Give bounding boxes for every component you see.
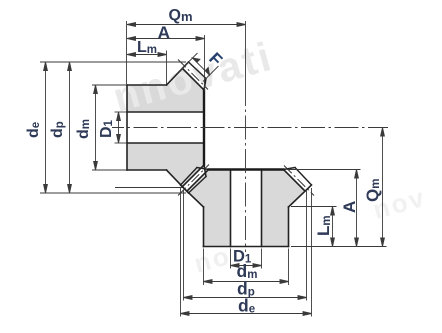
G1 hub bottom edge: [127, 169, 167, 171]
ext line dm bottom: [92, 169, 126, 171]
G1 tip line upper: [189, 62, 207, 79]
ext line A right (y=169.5): [287, 169, 361, 171]
ext line de top: [40, 61, 186, 63]
G2 toe face left: [197, 168, 209, 170]
svg-text:D1: D1: [98, 119, 115, 138]
dimension lines with arrows: [44, 23, 385, 316]
F extension toe: [203, 66, 219, 82]
G1 root line lower: [183, 165, 205, 187]
ext line D1 bottom: [115, 142, 128, 144]
G2 root line right: [284, 170, 306, 192]
G1 front face: [203, 89, 205, 166]
svg-text:de: de: [25, 122, 42, 138]
G2 bore left line: [230, 170, 232, 247]
G1 bore bottom line: [127, 142, 204, 144]
G2 bore right line: [261, 170, 263, 247]
G1 hub top edge: [127, 84, 167, 86]
dimension extension lines: [40, 21, 387, 317]
ext line Qm right (y=246.5): [291, 246, 387, 248]
dim Lm top: [127, 54, 167, 56]
G2 back cone left: [181, 185, 204, 207]
ext line dm top: [92, 84, 126, 86]
ext line dm bottom gear right: [288, 249, 290, 286]
ext line x=204.5 (A): [204, 35, 206, 91]
G2 hub left side: [203, 207, 205, 247]
ext line dp bottom gear right: [306, 190, 308, 301]
dim A right: [356, 170, 358, 247]
dim F: [193, 58, 210, 75]
dim de left: [45, 62, 47, 193]
ext line x=166.5 (Lm): [166, 51, 168, 85]
G1 root line upper: [183, 69, 205, 91]
G1 tip line lower (into mesh): [189, 177, 207, 194]
G2 tip line left (into mesh): [181, 168, 198, 186]
svg-text:A: A: [340, 201, 359, 213]
G2 hub right side: [288, 207, 290, 247]
bottom gear G2 body: [187, 170, 305, 247]
svg-text:de: de: [238, 296, 255, 316]
G2 pitch line right (dash-dot): [284, 166, 314, 196]
G2 tip line right: [295, 168, 312, 186]
svg-text:Qm: Qm: [363, 179, 382, 202]
G2 front face: [208, 168, 285, 170]
G1 back cone lower: [167, 170, 189, 193]
G2 axis centerline: [245, 106, 247, 252]
ext line dp bottom gear left: [183, 190, 185, 301]
ext line x=127 top: [126, 21, 128, 84]
dim de bottom: [181, 313, 312, 315]
G1 toe face upper: [204, 79, 206, 91]
common mesh pitch line (dash-dot): [178, 165, 209, 196]
G1 hub left face: [126, 85, 128, 170]
ext line de bottom gear right: [311, 188, 313, 317]
svg-text:dm: dm: [75, 119, 92, 139]
watermark: [108, 33, 429, 279]
G1 axis centerline: [112, 127, 388, 129]
left gear G1 body: [127, 69, 204, 187]
ext line D1 bottom gear left: [230, 249, 232, 269]
G1 toe face lower: [204, 165, 206, 177]
svg-text:dp: dp: [49, 121, 66, 138]
ext line D1 top: [115, 111, 128, 113]
svg-text:Lm: Lm: [314, 215, 333, 236]
ext line de bottom gear left: [180, 188, 182, 317]
dim Qm top: [127, 24, 246, 26]
svg-text:Lm: Lm: [137, 39, 157, 56]
G1 back cone upper: [167, 62, 189, 85]
G1 pitch line upper (dash-dot): [178, 60, 208, 90]
ext line D1 bottom gear right: [261, 249, 263, 269]
G2 axis extension (solid): [245, 21, 247, 106]
dim dm left: [95, 85, 97, 170]
ext line dm bottom gear left: [203, 249, 205, 286]
ext line de bottom: [40, 192, 186, 194]
dim A top: [127, 38, 205, 40]
G2 back cone right: [289, 185, 312, 207]
svg-text:Qm: Qm: [169, 7, 193, 24]
G2 root line left (mesh): [187, 170, 209, 192]
svg-text:A: A: [158, 23, 171, 43]
G1 bore top line: [127, 111, 204, 113]
dim dp left: [69, 62, 71, 193]
F extension heel: [177, 53, 198, 74]
dim dm bottom: [204, 281, 289, 283]
ext line dp bottom: [115, 187, 182, 189]
dim dp bottom: [184, 297, 307, 299]
G2 hub bottom face: [204, 246, 289, 248]
dim D1 bottom: [231, 265, 262, 267]
dim Qm right: [382, 128, 384, 247]
ext line Lm right (y=207): [291, 206, 337, 208]
G2 toe face right: [284, 168, 296, 170]
dim D1 left: [118, 112, 120, 143]
dim Lm right: [332, 207, 334, 247]
